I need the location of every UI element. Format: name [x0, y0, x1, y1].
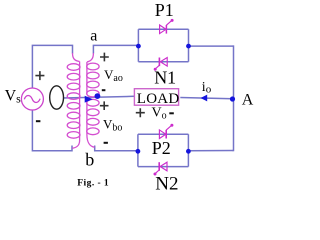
wire P1 N1 block rectangle	[138, 29, 188, 62]
transformer secondary lower coil	[87, 99, 99, 147]
wire P1N1 right junction to right rail	[189, 45, 234, 47]
plus sign below center tap	[100, 101, 109, 110]
junction dot node a	[136, 44, 141, 49]
svg-text:Vbo: Vbo	[103, 117, 122, 134]
svg-text:A: A	[242, 92, 254, 109]
transformer primary coil	[67, 53, 80, 148]
thyristor N2	[154, 162, 168, 175]
voltage source Vs circle	[21, 88, 43, 110]
svg-text:Vao: Vao	[104, 67, 123, 84]
plus sign source	[35, 71, 44, 80]
thyristor P2	[159, 124, 173, 139]
junction dot P2N2 right	[186, 149, 191, 154]
svg-text:io: io	[202, 80, 212, 95]
svg-text:P2: P2	[152, 138, 171, 158]
svg-text:N2: N2	[155, 173, 178, 194]
junction dot P1N1 right	[186, 44, 191, 49]
center tap junction dot	[95, 93, 101, 99]
wire right rail vertical	[233, 45, 234, 150]
minus sign source	[36, 120, 41, 122]
svg-text:a: a	[90, 28, 97, 45]
svg-text:Vs: Vs	[5, 87, 22, 105]
core ellipse	[50, 86, 64, 109]
wire P2 N2 block rectangle	[138, 134, 189, 166]
wire top-left from source to primary	[32, 45, 72, 88]
thyristor P1	[160, 19, 174, 34]
svg-text:Fig. - 1: Fig. - 1	[77, 178, 109, 188]
wire secondary bottom to P2 N2 block	[95, 146, 139, 151]
minus sign above center tap	[102, 89, 106, 91]
center tap arrow	[85, 96, 93, 103]
junction dot node A	[230, 96, 235, 101]
plus sign vo	[136, 108, 145, 117]
LOAD box	[134, 89, 178, 106]
io arrow	[201, 95, 208, 102]
svg-text:b: b	[85, 150, 94, 170]
junction dot P2N2 left	[136, 149, 141, 154]
voltage source sine wave	[24, 96, 40, 103]
svg-text:Vo: Vo	[152, 106, 167, 122]
wire center tap to LOAD	[63, 96, 135, 98]
transformer secondary upper coil	[87, 53, 99, 97]
wire LOAD right to node A	[180, 98, 232, 99]
svg-text:P1: P1	[155, 0, 174, 20]
minus sign vbo	[104, 142, 108, 144]
minus sign vo	[169, 112, 174, 114]
wire secondary top to node a junction	[93, 45, 138, 53]
plus sign vao	[100, 53, 109, 62]
svg-text:N1: N1	[154, 67, 176, 87]
thyristor N1	[154, 58, 168, 71]
wire P2N2 right junction to right rail	[188, 150, 233, 152]
wire bottom-left from source to primary bottom	[32, 110, 72, 151]
